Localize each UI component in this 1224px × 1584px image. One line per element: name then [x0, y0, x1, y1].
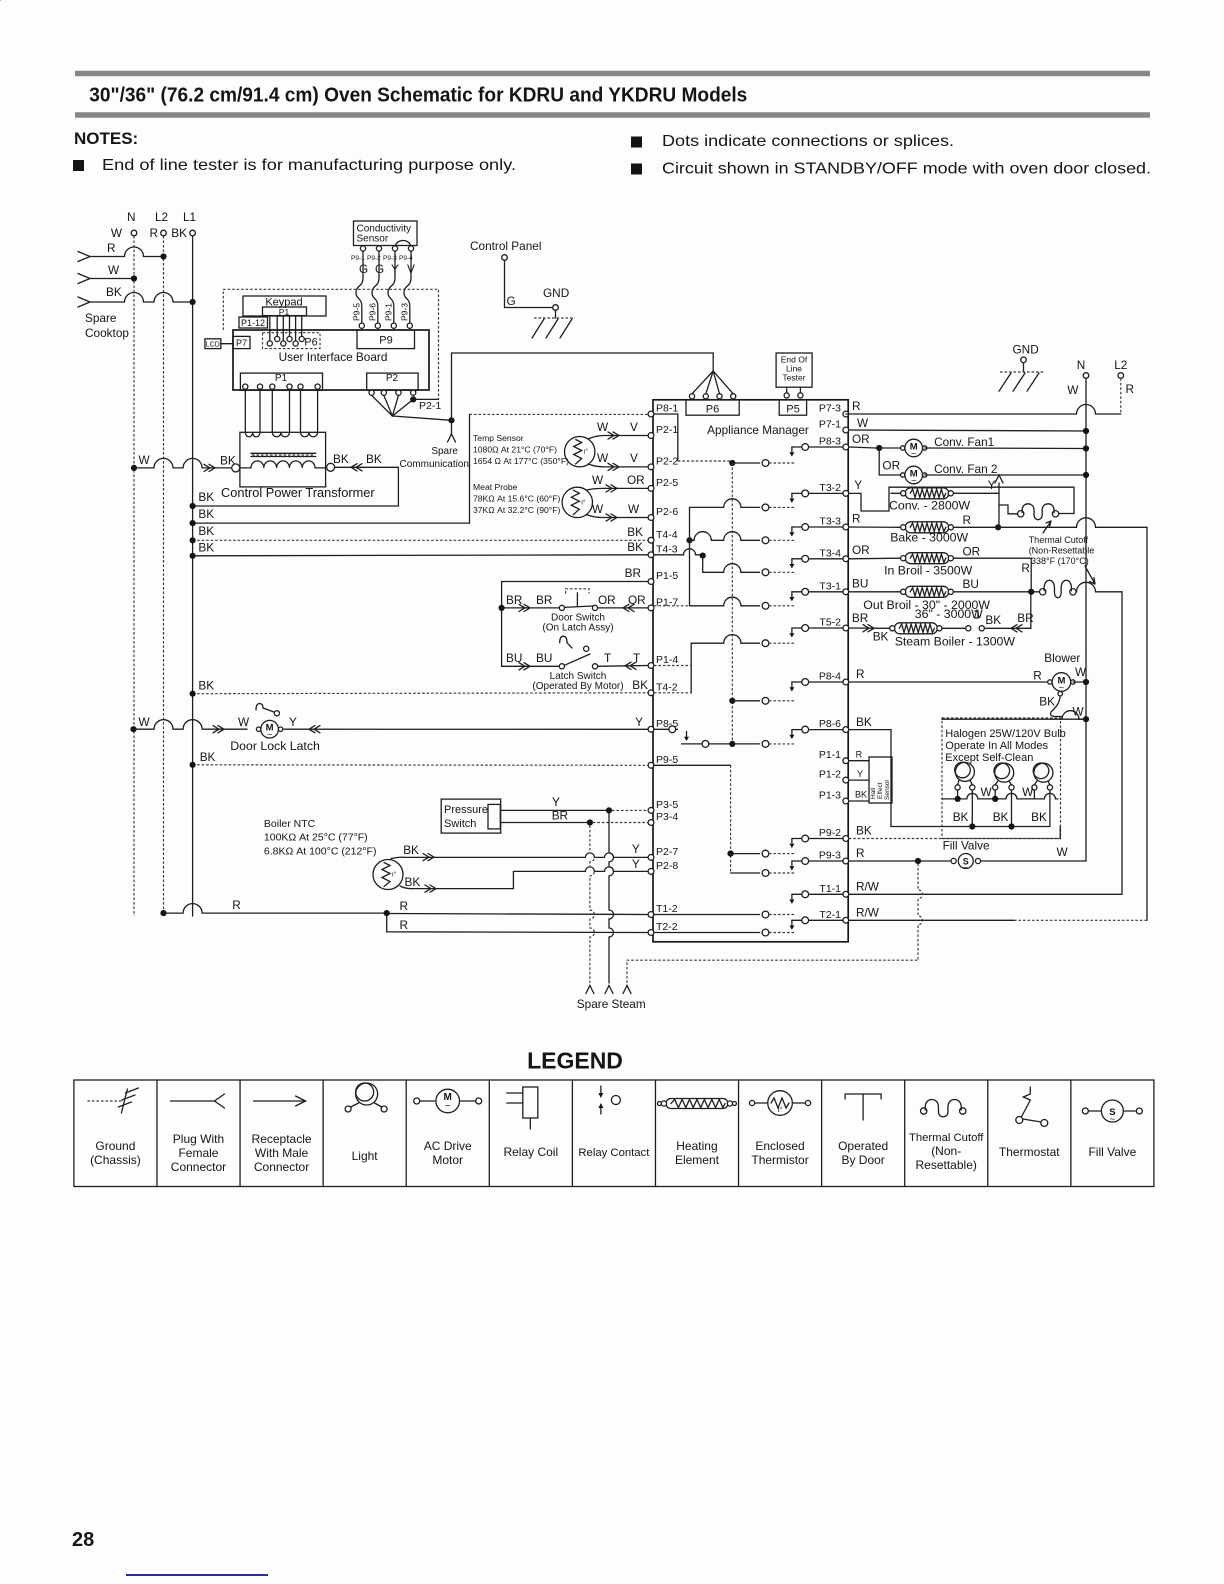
note bullet left	[73, 160, 84, 171]
svg-text:LEGEND: LEGEND	[527, 1048, 623, 1074]
P2 box	[367, 373, 418, 390]
wire P2 fan to spare communication junction	[392, 416, 451, 420]
svg-text:T4-3: T4-3	[656, 543, 678, 555]
svg-text:BR: BR	[536, 593, 552, 607]
svg-text:T2-2: T2-2	[656, 921, 678, 933]
door lock latch actuator	[256, 704, 274, 713]
bake element E2	[905, 522, 949, 533]
svg-text:BK: BK	[627, 540, 643, 554]
wire W to halogen	[942, 718, 1084, 720]
relay K-T2-1 contact	[792, 919, 843, 921]
note bullet right 1	[631, 137, 642, 148]
svg-text:P9: P9	[379, 335, 392, 347]
svg-text:Y: Y	[289, 715, 297, 729]
note bullet right 2	[631, 164, 642, 175]
pin P2-2	[648, 464, 654, 470]
legend table	[74, 1080, 1154, 1187]
svg-text:BK: BK	[1031, 810, 1047, 824]
wire temp sensor to P2-1	[588, 436, 648, 440]
wire BR to door switch	[502, 607, 560, 609]
cutoff2 pointer arrow	[1085, 566, 1095, 584]
steam boiler plug pair	[942, 627, 966, 629]
T4-3 internal bus	[654, 549, 703, 555]
pin T2-1	[843, 917, 849, 923]
svg-text:P2: P2	[386, 373, 399, 384]
legend thermal cutoff symbol	[921, 1108, 927, 1114]
LCD box	[205, 339, 221, 349]
relay K-T3-1 contact	[792, 591, 843, 593]
pin P9-5	[648, 762, 654, 768]
svg-text:P2-7: P2-7	[656, 846, 678, 858]
svg-text:Spare: Spare	[431, 446, 458, 457]
wire T3-3 R to bake	[849, 526, 901, 528]
center bus vertical	[729, 460, 735, 466]
svg-text:Hall: Hall	[870, 787, 877, 799]
svg-text:P3-4: P3-4	[656, 811, 678, 823]
svg-text:Connector: Connector	[254, 1160, 309, 1174]
svg-text:Operate In All Modes: Operate In All Modes	[945, 740, 1048, 752]
svg-text:Connector: Connector	[171, 1160, 226, 1174]
svg-text:P9-1: P9-1	[384, 303, 394, 321]
svg-text:R: R	[852, 399, 861, 413]
conv fan2 motor M2	[901, 473, 905, 477]
sensor wires down to P9	[356, 251, 363, 323]
svg-text:78KΩ At 15.6°C (60°F): 78KΩ At 15.6°C (60°F)	[473, 494, 560, 504]
svg-text:T2-1: T2-1	[819, 909, 841, 921]
svg-text:Y: Y	[635, 715, 643, 729]
door switch contacts	[559, 605, 564, 610]
fill valve S1	[951, 858, 956, 863]
wire cutoff2 to T1-1 riser	[1076, 582, 1122, 592]
relay K-T3-2 contact	[792, 492, 843, 494]
svg-text:Light: Light	[352, 1149, 379, 1163]
boiler NTC thermistor	[373, 860, 403, 890]
svg-text:Sensor: Sensor	[884, 779, 891, 800]
svg-text:Plug With: Plug With	[173, 1132, 224, 1146]
svg-text:37KΩ At 32.2°C (90°F): 37KΩ At 32.2°C (90°F)	[473, 505, 560, 515]
svg-text:36" - 3000W: 36" - 3000W	[915, 607, 983, 621]
pin T3-1	[843, 589, 849, 595]
svg-text:GND: GND	[543, 286, 569, 300]
svg-text:BK: BK	[198, 507, 214, 521]
svg-text:W: W	[108, 263, 120, 277]
pin P9-3	[843, 858, 849, 864]
svg-text:GND: GND	[1013, 343, 1039, 357]
svg-text:~: ~	[1110, 1114, 1116, 1125]
halogen bulb L2	[995, 763, 1014, 782]
neutral bus right vertical	[1085, 378, 1087, 861]
svg-text:W: W	[981, 785, 993, 799]
svg-text:P2-1: P2-1	[419, 400, 441, 412]
svg-text:R: R	[107, 241, 116, 255]
halogen bulb L1	[955, 762, 974, 781]
svg-text:P8-1: P8-1	[656, 403, 678, 415]
riser bake to T2-1	[1146, 527, 1148, 920]
pin P2-7	[648, 855, 654, 861]
svg-text:100KΩ At 25°C (77°F): 100KΩ At 25°C (77°F)	[264, 832, 368, 844]
keypad box	[243, 296, 326, 316]
svg-text:T3-1: T3-1	[819, 580, 841, 592]
svg-text:V: V	[630, 420, 638, 434]
svg-text:Thermistor: Thermistor	[751, 1153, 808, 1167]
wire BU to latch switch	[502, 665, 560, 667]
svg-text:BK: BK	[403, 843, 419, 857]
Y tap from conv fan2 line	[995, 475, 1003, 483]
svg-text:AC Drive: AC Drive	[424, 1139, 472, 1153]
svg-text:R: R	[1126, 382, 1135, 396]
door switch actuator	[576, 593, 578, 606]
svg-text:R: R	[400, 899, 409, 913]
svg-text:P9-5: P9-5	[656, 754, 678, 766]
svg-text:T1-1: T1-1	[819, 883, 841, 895]
pin P1-2	[843, 777, 849, 783]
svg-text:Resettable): Resettable)	[916, 1158, 977, 1172]
relay K-P9-3 contact	[792, 860, 843, 862]
svg-text:T: T	[633, 651, 640, 665]
control panel terminal	[502, 255, 508, 261]
conv fan1 motor M1	[901, 446, 905, 450]
legend ac drive motor symbol	[414, 1098, 420, 1104]
svg-text:(Operated By Motor): (Operated By Motor)	[532, 681, 623, 692]
svg-text:~: ~	[911, 449, 916, 459]
svg-text:P1-1: P1-1	[819, 749, 841, 761]
wire door switch to P1-7 OR	[598, 607, 649, 609]
svg-text:Element: Element	[675, 1153, 720, 1167]
svg-text:P1-4: P1-4	[656, 654, 678, 666]
thermal cutoff F2	[1040, 589, 1046, 595]
wire P8-3 OR to conv fan1	[849, 447, 876, 448]
svg-text:Heating: Heating	[676, 1139, 717, 1153]
wire P8-4 R to blower	[849, 681, 1047, 683]
wire cutoff to bake junction	[998, 505, 1000, 525]
svg-text:LCD: LCD	[206, 342, 220, 349]
svg-text:ι°: ι°	[581, 498, 586, 506]
svg-text:T3-3: T3-3	[819, 516, 841, 528]
transformer primary right terminal	[327, 463, 335, 471]
svg-text:W: W	[628, 502, 640, 516]
latch switch contacts	[559, 664, 564, 669]
pin T4-2	[648, 690, 654, 696]
svg-text:~: ~	[911, 476, 916, 486]
svg-text:R: R	[852, 512, 861, 526]
svg-text:User Interface Board: User Interface Board	[279, 350, 388, 364]
pin P2-6	[648, 515, 654, 521]
wire L2 to P7-3 R	[1120, 378, 1122, 414]
svg-text:R/W: R/W	[856, 880, 880, 894]
svg-text:28: 28	[72, 1529, 94, 1551]
svg-text:P7: P7	[236, 338, 247, 348]
wire P1-3 BK	[849, 800, 869, 802]
wire P7-1 W to N	[849, 430, 1086, 431]
hall effect sensor box	[869, 757, 892, 803]
wire P6 fan to control area	[452, 353, 714, 420]
svg-text:Communication: Communication	[400, 459, 469, 470]
wire T4-3 BK	[193, 555, 649, 556]
svg-text:BK: BK	[405, 875, 421, 889]
temp sensor thermistor	[565, 437, 595, 467]
pin P9-2	[843, 836, 849, 842]
svg-text:OR: OR	[852, 543, 870, 557]
svg-text:P1: P1	[275, 373, 288, 384]
neutral bus N vertical	[133, 236, 135, 916]
svg-text:By Door: By Door	[841, 1153, 884, 1167]
wire T4-4 BK	[193, 539, 649, 541]
svg-text:Conv. Fan 2: Conv. Fan 2	[934, 462, 997, 476]
header top rule	[75, 71, 1150, 76]
svg-text:BK: BK	[856, 715, 872, 729]
svg-text:6.8KΩ At 100°C (212°F): 6.8KΩ At 100°C (212°F)	[264, 846, 377, 858]
P2 pins	[369, 390, 374, 395]
pin T3-3	[843, 524, 849, 530]
svg-text:BK: BK	[953, 810, 969, 824]
svg-text:P2-6: P2-6	[656, 506, 678, 518]
svg-text:Temp Sensor: Temp Sensor	[473, 433, 524, 443]
wire T3-1 BU to out broil	[849, 591, 901, 593]
relay coil P8-5 side	[654, 728, 678, 730]
svg-text:NOTES:: NOTES:	[74, 129, 138, 148]
wire P9-5 BK to L1	[193, 764, 649, 767]
svg-text:T5-2: T5-2	[819, 617, 841, 629]
svg-text:V: V	[630, 451, 638, 465]
svg-text:Switch: Switch	[444, 818, 476, 830]
svg-text:R: R	[149, 226, 158, 240]
svg-text:Tester: Tester	[782, 373, 805, 383]
legend ground symbol	[87, 1100, 121, 1102]
wire boiler NTC to P2-8	[400, 886, 411, 889]
line L1 vertical	[192, 236, 194, 916]
svg-text:L1: L1	[183, 210, 196, 224]
svg-text:BK: BK	[993, 810, 1009, 824]
svg-text:W: W	[592, 473, 604, 487]
svg-text:Door Lock Latch: Door Lock Latch	[230, 739, 320, 753]
svg-text:Steam Boiler - 1300W: Steam Boiler - 1300W	[895, 635, 1016, 649]
svg-text:BK: BK	[985, 613, 1001, 627]
svg-text:t°: t°	[778, 1106, 783, 1114]
svg-text:P6: P6	[304, 337, 317, 349]
svg-text:R: R	[856, 846, 865, 860]
pin P1-7	[648, 605, 654, 611]
wire pressure switch BR to P3-4	[500, 822, 587, 824]
svg-text:P2-1: P2-1	[656, 424, 678, 436]
wires UIB P1 to transformer	[244, 389, 246, 431]
legend receptacle male symbol	[254, 1100, 306, 1102]
relay K-P8-6 contact	[792, 729, 843, 731]
appliance manager box U1	[653, 400, 848, 942]
thermal cutoff F1	[1018, 511, 1024, 517]
svg-text:OR: OR	[882, 459, 900, 473]
wire meat probe to P2-5	[586, 488, 648, 490]
conductivity sensor bump	[395, 241, 411, 248]
svg-text:30"/36" (76.2 cm/91.4 cm) Oven: 30"/36" (76.2 cm/91.4 cm) Oven Schematic…	[89, 85, 747, 107]
meat probe thermistor	[562, 487, 592, 517]
svg-text:Pressure: Pressure	[444, 804, 488, 816]
svg-text:Control Power Transformer: Control Power Transformer	[221, 485, 375, 500]
transformer core lines	[251, 452, 316, 454]
out broil element E4	[905, 586, 949, 597]
svg-text:ι°: ι°	[584, 448, 589, 456]
junction BR riser	[499, 605, 505, 611]
conductivity sensor pins	[360, 246, 365, 251]
wire LCD to P7	[221, 343, 233, 345]
svg-text:OR: OR	[627, 473, 645, 487]
svg-text:Motor: Motor	[432, 1153, 463, 1167]
svg-text:P2-5: P2-5	[656, 477, 678, 489]
wire P9-3 R to fill valve	[849, 860, 951, 862]
svg-text:Thermal Cutoff: Thermal Cutoff	[1029, 535, 1089, 545]
svg-text:BU: BU	[852, 577, 868, 591]
svg-text:T3-4: T3-4	[819, 547, 841, 559]
svg-text:W: W	[1057, 845, 1069, 859]
svg-text:G: G	[507, 294, 516, 308]
relay K-P8-3 contact	[792, 446, 843, 448]
relay K-T3-4 contact	[792, 558, 843, 560]
pin T2-2	[648, 930, 654, 936]
wire OR branch to conv fan2	[879, 448, 903, 475]
end of line tester box	[776, 353, 812, 387]
svg-text:W: W	[238, 715, 250, 729]
svg-text:Y: Y	[632, 857, 640, 871]
UIB P1 pins	[243, 384, 248, 389]
pin P8-5	[648, 726, 654, 732]
steam boiler element E5	[894, 623, 937, 634]
wire P1-1 R	[849, 760, 869, 762]
blower lower terminal wire BK	[1058, 692, 1062, 696]
svg-text:P7-3: P7-3	[819, 403, 841, 415]
spare cooktop feeder R	[78, 252, 90, 262]
svg-text:BK: BK	[873, 630, 889, 644]
svg-text:R: R	[963, 513, 972, 527]
wire P1-7 to internal bus	[654, 605, 690, 607]
legend light symbol	[356, 1083, 378, 1105]
legend fill valve symbol	[1082, 1108, 1088, 1114]
svg-text:Thermal Cutoff: Thermal Cutoff	[909, 1132, 984, 1144]
svg-text:OR: OR	[963, 545, 981, 559]
svg-text:N: N	[1077, 358, 1086, 372]
svg-text:Appliance Manager: Appliance Manager	[707, 423, 809, 437]
spare steam return riser	[918, 864, 923, 961]
svg-text:338°F (170°C): 338°F (170°C)	[1031, 556, 1089, 566]
legend plug female symbol	[170, 1100, 214, 1102]
P6 fan wires	[692, 371, 713, 394]
svg-text:Dots indicate connections or s: Dots indicate connections or splices.	[662, 133, 954, 150]
wire P2-1 to enclosure edge	[413, 398, 438, 400]
svg-text:Y: Y	[854, 478, 862, 492]
svg-text:OR: OR	[598, 593, 616, 607]
svg-text:R: R	[1033, 669, 1042, 683]
latch switch actuator	[560, 636, 572, 648]
wire N to transformer W-BK	[131, 465, 137, 471]
wire P8-6 BK to halogen	[849, 730, 891, 827]
legend operated by door symbol	[845, 1094, 881, 1099]
svg-text:P2-8: P2-8	[656, 860, 678, 872]
T4-4 internal bus	[686, 537, 692, 543]
svg-text:Fill Valve: Fill Valve	[943, 839, 990, 853]
pin T1-1	[843, 891, 849, 897]
door switch supply riser	[502, 582, 649, 667]
legend thermostat symbol	[1023, 1087, 1030, 1106]
svg-text:P1: P1	[279, 307, 290, 317]
wire R to T2-2	[387, 913, 649, 932]
svg-text:Enclosed: Enclosed	[755, 1139, 804, 1153]
wire temp sensor to P2-2	[588, 464, 648, 467]
svg-text:P3-5: P3-5	[656, 799, 678, 811]
svg-text:P1-5: P1-5	[656, 570, 678, 582]
svg-text:P8-4: P8-4	[819, 671, 841, 683]
pin T3-2	[843, 491, 849, 497]
svg-text:Relay Coil: Relay Coil	[503, 1145, 558, 1159]
keypad wires to P6	[269, 317, 271, 341]
svg-text:(Non-: (Non-	[931, 1144, 961, 1158]
transformer secondary loops	[245, 432, 260, 437]
pin T3-4	[843, 556, 849, 562]
svg-text:BK: BK	[198, 679, 214, 693]
legend enclosed thermistor symbol	[749, 1100, 754, 1105]
wire T3-4 OR to in broil	[849, 557, 901, 560]
wire L2 R to T1-2	[160, 910, 166, 916]
pin P2-5	[648, 486, 654, 492]
svg-text:W: W	[1067, 383, 1079, 397]
transformer primary left terminal	[232, 464, 240, 472]
relay K-T5-2 contact	[792, 627, 843, 629]
junction spare communication	[448, 417, 454, 423]
svg-text:W: W	[597, 420, 609, 434]
wire door lock to P8-5 Y	[284, 728, 648, 730]
in broil element E3	[905, 553, 949, 564]
svg-text:Effect: Effect	[877, 782, 884, 799]
svg-text:P9-2: P9-2	[819, 827, 841, 839]
P2-1 junction	[410, 396, 416, 402]
svg-text:P1-3: P1-3	[819, 790, 841, 802]
svg-text:In Broil - 3500W: In Broil - 3500W	[884, 564, 973, 578]
wire T5-2 BR to steam boiler	[849, 627, 890, 629]
svg-text:Ground: Ground	[95, 1139, 135, 1153]
pin P2-1	[648, 433, 654, 439]
svg-text:P9-3: P9-3	[819, 850, 841, 862]
svg-text:Fill Valve: Fill Valve	[1088, 1145, 1136, 1159]
conductivity sensor box	[354, 221, 418, 246]
svg-text:BK: BK	[366, 452, 382, 466]
wire T4-2 BK to L1	[193, 692, 649, 695]
pin P1-4	[648, 663, 654, 669]
wire P8-1 internal	[654, 414, 678, 461]
svg-text:BK: BK	[200, 750, 216, 764]
svg-text:Operated: Operated	[838, 1139, 888, 1153]
pin P8-3	[843, 444, 849, 450]
svg-text:P1-12: P1-12	[241, 318, 265, 328]
svg-text:W: W	[592, 502, 604, 516]
P6 box keypad	[263, 333, 321, 349]
spare steam riser 2 Y	[609, 813, 614, 983]
connector P6	[686, 400, 739, 415]
svg-text:BK: BK	[198, 541, 214, 555]
pin P8-6	[843, 727, 849, 733]
svg-text:OR: OR	[852, 432, 870, 446]
header bottom rule	[75, 112, 1150, 117]
UIB P1 bottom box	[240, 373, 322, 390]
svg-text:Spare: Spare	[85, 311, 117, 325]
relay K-T1-1 contact	[792, 893, 843, 895]
chassis ground symbol left	[555, 310, 557, 318]
svg-text:With Male: With Male	[255, 1146, 309, 1160]
svg-text:P9-5: P9-5	[352, 303, 362, 321]
svg-text:ι°: ι°	[392, 871, 397, 879]
halogen enclosure box	[942, 718, 1061, 839]
svg-text:R: R	[1021, 561, 1030, 575]
svg-text:Conv. Fan1: Conv. Fan1	[934, 435, 994, 449]
pin P8-1	[648, 411, 654, 417]
P2 fan wires	[372, 395, 393, 416]
svg-text:W: W	[1073, 705, 1085, 719]
